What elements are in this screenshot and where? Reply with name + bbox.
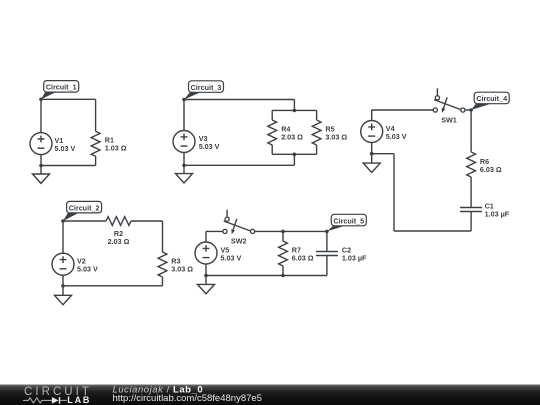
wire C1 lower lead xyxy=(470,212,472,231)
wire left return rail xyxy=(393,154,395,231)
node junction top-left circuit 1 xyxy=(39,98,43,102)
wire R7 lower lead xyxy=(282,266,284,276)
wire right upper lead R3 xyxy=(162,221,164,252)
node junction V4 bottom xyxy=(370,152,374,156)
voltage source V1 xyxy=(30,133,52,155)
node junction top-left circuit 2 xyxy=(61,219,65,223)
node junction R7 top xyxy=(281,230,285,234)
wire R6 to C1 xyxy=(470,177,472,207)
svg-text:Circuit_3: Circuit_3 xyxy=(191,83,222,92)
svg-text:Circuit_2: Circuit_2 xyxy=(69,203,100,212)
svg-text:5.03 V: 5.03 V xyxy=(221,254,242,263)
svg-text:1.03 Ω: 1.03 Ω xyxy=(105,144,127,153)
resistor R7 xyxy=(279,241,288,266)
resistor R2 xyxy=(106,217,131,226)
wire parallel top rail xyxy=(272,109,316,111)
R7 name and value labels xyxy=(292,246,314,263)
wire switch to node xyxy=(465,109,471,111)
wire left upper lead V1 xyxy=(40,99,42,132)
label callout Circuit_2 xyxy=(63,201,102,221)
R6 name and value labels xyxy=(480,157,502,174)
V1 name and value labels xyxy=(55,136,76,153)
svg-text:LAB: LAB xyxy=(67,395,91,405)
label callout Circuit_5 xyxy=(327,214,366,231)
R3 name and value labels xyxy=(171,257,193,274)
ground circuit 1 xyxy=(33,166,50,184)
ground circuit 4 xyxy=(363,154,380,173)
R2 name and value labels xyxy=(108,229,130,246)
wire left upper lead V3 xyxy=(183,100,185,131)
svg-text:5.03 V: 5.03 V xyxy=(55,144,76,153)
node junction parallel bottom xyxy=(293,153,297,157)
svg-text:5.03 V: 5.03 V xyxy=(386,132,407,141)
wire top-left segment circuit 2 xyxy=(63,220,106,222)
wire V4 bottom lead xyxy=(371,143,373,154)
wire bottom rail circuit 5 xyxy=(206,275,327,277)
R1 name and value labels xyxy=(105,136,127,153)
svg-text:http://circuitlab.com/c58fe48n: http://circuitlab.com/c58fe48ny87e5 xyxy=(113,393,262,404)
wire V5 top lead xyxy=(205,231,207,242)
svg-text:Circuit_5: Circuit_5 xyxy=(333,216,364,225)
wire top-right segment circuit 2 xyxy=(131,220,163,222)
switch SW2 xyxy=(223,210,255,235)
resistor R5 xyxy=(312,120,321,145)
wire C2 lower lead xyxy=(326,256,328,276)
wire left lower lead V3 xyxy=(183,153,185,166)
voltage source V2 xyxy=(52,253,74,275)
switch SW1 xyxy=(433,88,465,113)
svg-text:6.03 Ω: 6.03 Ω xyxy=(292,254,314,263)
label callout Circuit_1 xyxy=(41,81,79,100)
capacitor C1 xyxy=(460,208,482,212)
node junction bottom-left circuit 2 xyxy=(61,284,65,288)
node junction R7 bottom xyxy=(281,274,285,278)
V5 name and value labels xyxy=(221,246,242,263)
resistor R4 xyxy=(268,120,277,145)
C1 name and value labels xyxy=(485,202,510,219)
wire bottom center drop xyxy=(293,154,295,165)
CircuitLab logo diode xyxy=(52,397,67,404)
capacitor C2 xyxy=(316,252,338,256)
wire bottom rail circuit 1 xyxy=(41,165,96,167)
wire R6 upper lead xyxy=(470,110,472,152)
node junction C2 top xyxy=(325,230,329,234)
node junction switch output xyxy=(469,108,473,112)
C2 name and value labels xyxy=(342,246,367,263)
wire R4 lower lead xyxy=(271,145,273,154)
svg-text:6.03 Ω: 6.03 Ω xyxy=(480,165,502,174)
wire right lower lead R1 xyxy=(95,156,97,165)
wire switch SW2 to R7 node xyxy=(255,230,283,232)
V4 name and value labels xyxy=(386,124,407,141)
wire V4 top lead xyxy=(371,110,373,121)
svg-text:SW2: SW2 xyxy=(231,237,247,246)
wire R5 upper lead xyxy=(316,110,318,120)
node junction top-left circuit 3 xyxy=(182,98,186,102)
svg-text:3.03 Ω: 3.03 Ω xyxy=(171,265,193,274)
ground circuit 2 xyxy=(55,286,72,305)
wire R7 node to C2 node xyxy=(283,230,327,232)
wire parallel bottom rail xyxy=(272,153,316,155)
wire top center drop xyxy=(293,100,295,111)
wire left lower lead V2 xyxy=(62,275,64,286)
resistor R1 xyxy=(91,131,100,156)
V3 name and value labels xyxy=(199,134,220,151)
wire right upper lead R1 xyxy=(95,99,97,131)
wire top rail circuit 1 xyxy=(41,98,96,100)
svg-text:1.03 µF: 1.03 µF xyxy=(342,254,367,263)
label callout Circuit_3 xyxy=(184,81,224,100)
CircuitLab logo schematic line with resistor xyxy=(23,398,52,403)
voltage source V3 xyxy=(173,131,195,153)
wire bottom rail circuit 4 xyxy=(394,230,471,232)
resistor R6 xyxy=(467,152,476,177)
wire bottom rail circuit 3 xyxy=(184,164,294,166)
wire right lower lead R3 xyxy=(162,277,164,286)
R5 name and value labels xyxy=(325,125,347,142)
wire left upper lead V2 xyxy=(62,221,64,253)
wire R7 upper lead xyxy=(282,231,284,241)
svg-text:2.03 Ω: 2.03 Ω xyxy=(281,133,303,142)
wire top rail to switch xyxy=(372,109,434,111)
wire R5 lower lead xyxy=(316,145,318,154)
wire left lower lead V1 xyxy=(40,155,42,166)
svg-text:SW1: SW1 xyxy=(441,115,457,124)
wire top rail circuit 3 xyxy=(184,99,294,101)
wire bottom rail circuit 2 xyxy=(63,285,163,287)
voltage source V4 xyxy=(361,121,383,143)
V2 name and value labels xyxy=(77,257,98,274)
wire source bottom to return xyxy=(372,153,394,155)
ground circuit 3 xyxy=(176,165,193,183)
svg-text:5.03 V: 5.03 V xyxy=(77,265,98,274)
wire C2 upper lead xyxy=(326,231,328,251)
node junction parallel top xyxy=(293,109,297,113)
footer background bar xyxy=(0,385,540,405)
voltage source V5 xyxy=(195,242,217,264)
node junction bottom-left circuit 1 xyxy=(39,164,43,168)
node junction V5 bottom xyxy=(204,274,208,278)
R4 name and value labels xyxy=(281,125,303,142)
wire V5 bottom lead xyxy=(205,264,207,276)
svg-text:Circuit_4: Circuit_4 xyxy=(476,94,507,103)
svg-text:3.03 Ω: 3.03 Ω xyxy=(325,133,347,142)
resistor R3 xyxy=(158,252,167,277)
label callout Circuit_4 xyxy=(471,92,509,110)
svg-text:1.03 µF: 1.03 µF xyxy=(485,210,510,219)
ground circuit 5 xyxy=(198,276,215,294)
svg-text:Circuit_1: Circuit_1 xyxy=(46,83,77,92)
node junction bottom-left circuit 3 xyxy=(182,164,186,168)
wire top rail to switch SW2 xyxy=(206,230,223,232)
svg-text:2.03 Ω: 2.03 Ω xyxy=(108,237,130,246)
wire R4 upper lead xyxy=(271,110,273,120)
svg-text:5.03 V: 5.03 V xyxy=(199,142,220,151)
